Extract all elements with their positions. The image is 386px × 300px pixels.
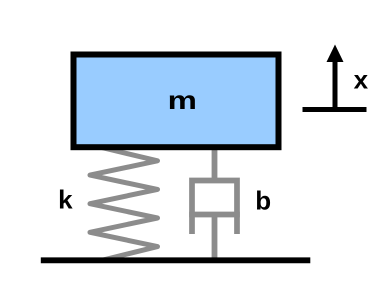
damper top rod bbox=[212, 146, 218, 181]
ground bbox=[41, 257, 311, 263]
mass block m bbox=[74, 55, 279, 148]
svg-text:b: b bbox=[255, 185, 271, 215]
svg-text:x: x bbox=[354, 65, 369, 95]
x-axis reference line bbox=[303, 107, 367, 112]
svg-text:k: k bbox=[58, 184, 73, 214]
x arrowhead bbox=[327, 45, 344, 63]
x arrow shaft bbox=[333, 60, 338, 112]
spring k (zigzag) bbox=[90, 147, 158, 261]
damper cylinder U1 bbox=[192, 181, 237, 235]
svg-text:m: m bbox=[168, 85, 197, 115]
damper bottom rod bbox=[212, 215, 218, 260]
damper piston bbox=[189, 212, 240, 218]
